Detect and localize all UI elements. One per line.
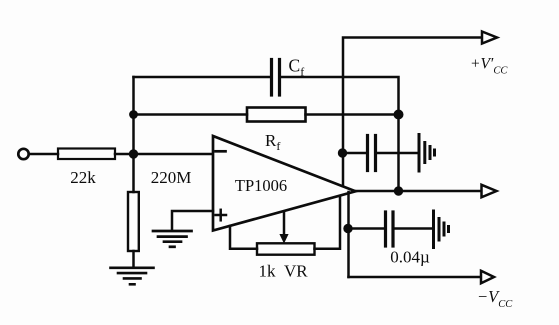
node E junction <box>344 224 352 232</box>
ground at noninverting input <box>153 231 192 247</box>
node B junction <box>130 111 138 119</box>
input terminal <box>18 149 28 159</box>
svg-text:Rf: Rf <box>265 131 280 153</box>
capacitor bypass upper <box>343 136 418 171</box>
-Vcc terminal arrow <box>481 271 494 284</box>
wire VR right end to op-amp <box>315 197 341 249</box>
capacitor C3 0.04u <box>348 212 432 267</box>
svg-text:1k VR: 1k VR <box>258 262 308 281</box>
potentiometer VR 1k <box>257 243 315 280</box>
wire input to 22k <box>29 153 58 156</box>
ground sideways upper <box>419 135 435 172</box>
wire Rf right lead <box>306 113 399 116</box>
svg-text:220M: 220M <box>151 168 192 187</box>
svg-text:+V′CC: +V′CC <box>470 56 508 77</box>
wire node A up to feedback <box>132 77 135 154</box>
resistor R2 220M <box>128 192 139 251</box>
svg-text:−VCC: −VCC <box>477 287 513 310</box>
wire Cf right lead <box>281 77 399 113</box>
resistor R1 22k <box>58 149 115 188</box>
resistor Rf <box>247 108 306 154</box>
-Vcc bottom wire <box>349 276 482 279</box>
ground under 220M <box>111 268 154 285</box>
+Vcc rail <box>343 38 482 187</box>
wire 22k to inverting input <box>115 153 212 156</box>
svg-text:Cf: Cf <box>289 56 305 79</box>
wire 220M to ground <box>132 251 135 267</box>
wire VR left end to op-amp <box>230 226 257 249</box>
wire Rf left lead <box>134 113 248 116</box>
+Vcc terminal arrow <box>482 32 497 44</box>
wire noninverting input <box>172 211 213 230</box>
node C junction <box>394 110 403 119</box>
svg-text:22k: 22k <box>70 168 96 187</box>
-Vcc rail <box>347 192 350 277</box>
wiper arrowhead <box>280 235 288 243</box>
output wire <box>356 190 482 193</box>
wire feedback rail down to output <box>397 115 400 192</box>
output terminal arrow <box>482 185 497 198</box>
wire Cf left lead <box>134 76 272 79</box>
node D junction <box>338 149 346 157</box>
wire node A down to 220M <box>132 154 135 192</box>
ground sideways lower <box>434 211 449 248</box>
svg-text:TP1006: TP1006 <box>235 176 287 195</box>
capacitor Cf <box>272 56 305 96</box>
svg-text:0.04µ: 0.04µ <box>390 248 430 267</box>
wire VR wiper from op-amp <box>283 212 286 236</box>
node A junction <box>129 150 137 158</box>
output node junction <box>394 187 402 195</box>
op-amp U1 TP1006 <box>213 136 356 231</box>
